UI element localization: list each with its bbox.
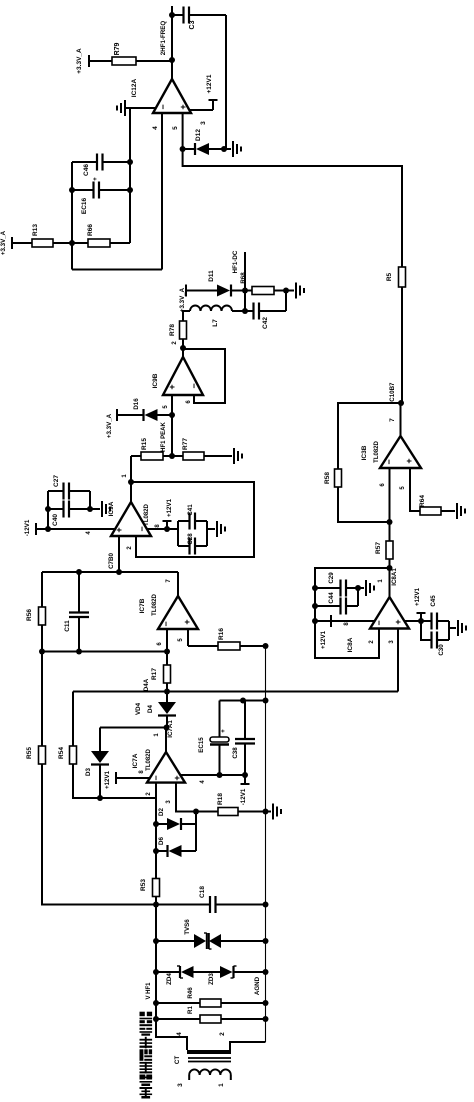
svg-text:+: + — [393, 619, 403, 624]
svg-text:+: + — [167, 384, 177, 389]
svg-text:ZD4: ZD4 — [166, 973, 173, 985]
svg-text:TL082D: TL082D — [152, 594, 158, 616]
svg-text:IC8A1: IC8A1 — [391, 568, 398, 586]
svg-text:EC16: EC16 — [81, 197, 88, 214]
svg-text:L7: L7 — [212, 319, 219, 327]
svg-text:D4A: D4A — [143, 678, 150, 691]
svg-text:D2: D2 — [158, 807, 165, 815]
svg-text:-12V1: -12V1 — [240, 788, 247, 805]
svg-text:R53: R53 — [140, 879, 147, 891]
svg-text:R79: R79 — [114, 42, 121, 55]
svg-text:5: 5 — [172, 126, 179, 130]
svg-text:IC12A: IC12A — [131, 78, 138, 97]
svg-text:IC10B7: IC10B7 — [389, 382, 396, 404]
svg-text:D12: D12 — [195, 129, 202, 141]
svg-text:+: + — [172, 775, 182, 780]
svg-text:C27: C27 — [53, 475, 60, 487]
svg-text:TL082D: TL082D — [144, 504, 150, 526]
svg-text:R64: R64 — [419, 495, 426, 507]
svg-text:R17: R17 — [151, 668, 158, 680]
svg-text:C41: C41 — [187, 504, 194, 516]
svg-text:−: − — [161, 621, 171, 626]
svg-text:R58: R58 — [324, 472, 331, 484]
svg-text:4: 4 — [152, 126, 159, 130]
svg-text:3: 3 — [200, 121, 207, 125]
svg-text:−: − — [137, 526, 147, 531]
svg-text:R46: R46 — [187, 987, 194, 999]
svg-text:−: − — [384, 459, 394, 464]
svg-text:CT: CT — [174, 1056, 181, 1064]
svg-text:−: − — [151, 775, 161, 780]
svg-text:2: 2 — [219, 1032, 226, 1036]
svg-text:C7B0: C7B0 — [108, 553, 115, 569]
svg-text:R5: R5 — [386, 272, 393, 281]
svg-text:+12V1: +12V1 — [166, 498, 173, 517]
svg-text:R54: R54 — [58, 747, 65, 759]
svg-text:R78: R78 — [169, 324, 176, 336]
svg-text:R66: R66 — [87, 224, 94, 236]
svg-text:IC8A: IC8A — [347, 637, 354, 652]
svg-text:+3.3V_A: +3.3V_A — [106, 413, 113, 438]
svg-text:V HF1: V HF1 — [146, 982, 152, 1000]
svg-text:R55: R55 — [26, 747, 33, 759]
svg-text:C3: C3 — [189, 20, 196, 29]
svg-text:+12V1: +12V1 — [414, 587, 421, 606]
svg-text:IC3B: IC3B — [361, 445, 368, 460]
svg-text:IC9B: IC9B — [152, 373, 159, 388]
svg-text:+: + — [221, 729, 227, 733]
svg-text:D4: D4 — [147, 704, 154, 712]
svg-text:+: + — [178, 104, 188, 109]
svg-text:C18: C18 — [199, 886, 206, 898]
svg-text:−: − — [374, 620, 384, 625]
svg-text:+3.3V_A: +3.3V_A — [76, 48, 83, 74]
svg-text:1: 1 — [218, 1083, 225, 1087]
svg-text:4: 4 — [176, 1032, 183, 1036]
svg-text:HF1-DC: HF1-DC — [232, 250, 239, 273]
svg-text:C40: C40 — [52, 514, 59, 526]
svg-text:+3.3V_A: +3.3V_A — [0, 230, 7, 255]
svg-text:+: + — [182, 619, 192, 624]
svg-text:C42: C42 — [262, 317, 269, 329]
svg-text:VD4: VD4 — [135, 702, 142, 715]
svg-text:TL082D: TL082D — [374, 441, 380, 463]
svg-text:TL082D: TL082D — [146, 749, 152, 771]
svg-text:C28: C28 — [187, 533, 194, 545]
svg-text:+: + — [114, 527, 124, 532]
svg-text:C46: C46 — [83, 164, 90, 176]
svg-text:R15: R15 — [141, 438, 148, 450]
svg-text:EC15: EC15 — [198, 737, 205, 753]
svg-text:R77: R77 — [182, 438, 189, 450]
svg-text:R13: R13 — [32, 224, 39, 236]
svg-text:D11: D11 — [208, 270, 215, 282]
svg-text:2HF1-FREQ: 2HF1-FREQ — [160, 21, 167, 56]
svg-text:+: + — [93, 177, 99, 181]
svg-text:D3: D3 — [85, 767, 92, 775]
svg-text:R57: R57 — [375, 542, 382, 554]
svg-text:-12V1: -12V1 — [24, 519, 31, 536]
svg-text:+12V1: +12V1 — [320, 630, 327, 649]
svg-text:R56: R56 — [26, 609, 33, 621]
svg-text:−: − — [189, 383, 199, 388]
svg-text:+12V1: +12V1 — [104, 770, 111, 789]
svg-text:+: + — [404, 458, 414, 463]
svg-text:C45: C45 — [430, 595, 437, 607]
svg-text:R1: R1 — [187, 1005, 194, 1013]
svg-text:R18: R18 — [217, 793, 224, 805]
svg-text:C44: C44 — [328, 592, 335, 604]
svg-text:IC7B: IC7B — [139, 598, 146, 613]
svg-text:TVS6: TVS6 — [184, 919, 191, 935]
svg-text:C38: C38 — [232, 747, 239, 759]
svg-text:C29: C29 — [328, 572, 335, 584]
svg-text:IC7A1: IC7A1 — [167, 720, 174, 738]
svg-text:7: 7 — [389, 418, 396, 422]
svg-text:D16: D16 — [133, 398, 140, 410]
svg-text:AGND: AGND — [254, 976, 261, 995]
svg-text:+12V1: +12V1 — [206, 74, 213, 93]
svg-text:C30: C30 — [438, 644, 445, 656]
svg-text:R16: R16 — [218, 628, 225, 640]
svg-text:ZD3: ZD3 — [208, 973, 215, 985]
svg-text:D6: D6 — [158, 836, 165, 844]
svg-text:IC7A: IC7A — [132, 753, 139, 768]
svg-text:−: − — [158, 104, 168, 109]
svg-text:C11: C11 — [64, 620, 71, 632]
svg-text:3: 3 — [177, 1083, 184, 1087]
svg-text:HF1 PEAK: HF1 PEAK — [161, 421, 167, 451]
svg-text:+3.3V_A: +3.3V_A — [179, 287, 186, 312]
